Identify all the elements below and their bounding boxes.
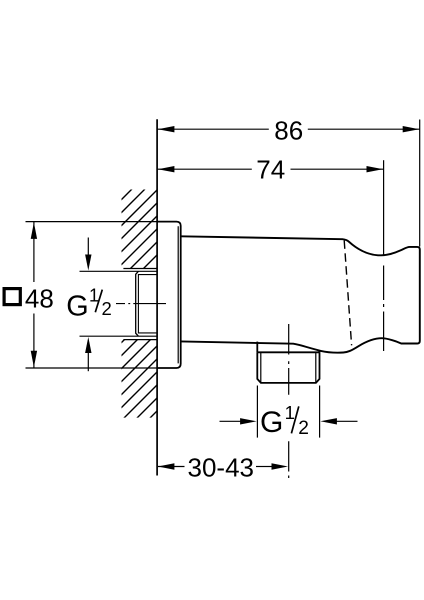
dimension 30-43 right arrow xyxy=(256,466,272,468)
inlet thread outer profile with chamfers xyxy=(136,271,139,336)
inlet thread inner (minor diameter) lines xyxy=(138,275,157,333)
outlet centre line (dash-dot) xyxy=(288,324,290,478)
dimension square-48 bottom extension line xyxy=(26,367,158,369)
G1/2 left leader arrow top xyxy=(87,238,89,256)
outlet nipple neck right xyxy=(319,351,321,353)
holder groove centre line (dash-dot) xyxy=(383,266,385,352)
square symbol xyxy=(4,289,20,305)
hidden edge (cone/head junction, dashed) xyxy=(344,240,351,345)
arrow 74 right xyxy=(367,166,384,172)
G1/2 left leader arrow bottom xyxy=(87,353,89,371)
dimension line 74 xyxy=(157,168,252,170)
outlet nipple thread outer profile xyxy=(257,352,319,383)
svg-text:G: G xyxy=(66,291,88,323)
wall recess bottom line xyxy=(123,339,157,341)
svg-text:2: 2 xyxy=(102,298,112,319)
dimension 86 right extension line xyxy=(419,120,421,247)
outlet nipple thread inner lines xyxy=(261,353,316,383)
dimension line 86 xyxy=(157,128,269,130)
G1/2 bottom right extension line xyxy=(319,386,321,438)
arrow 48 top xyxy=(31,222,37,239)
inlet centre line (dash-dot) xyxy=(116,303,166,305)
svg-text:2: 2 xyxy=(298,418,309,439)
body cone and holder head outline xyxy=(181,236,420,352)
dimension square-48 top extension line xyxy=(26,221,158,223)
arrow 48 bottom xyxy=(31,351,37,368)
svg-text:48: 48 xyxy=(25,283,54,313)
G1/2 bottom left extension line xyxy=(256,386,258,438)
arrow 86 right xyxy=(403,126,420,132)
G1/2 bottom right arrow xyxy=(337,420,358,422)
wall recess top line xyxy=(123,268,157,270)
svg-text:30-43: 30-43 xyxy=(188,453,255,483)
wall surface line xyxy=(156,119,158,475)
outlet nipple neck left xyxy=(256,342,258,353)
flange face inner edge line xyxy=(177,226,179,363)
flange (escutcheon) outline xyxy=(157,222,181,368)
wall hatching xyxy=(112,146,162,508)
dimension line 48 vertical xyxy=(33,222,35,282)
dimension 30-43 left arrow xyxy=(158,466,185,468)
arrow 86 left xyxy=(158,126,175,132)
arrow 74 left xyxy=(158,166,175,172)
svg-text:74: 74 xyxy=(256,154,285,184)
svg-text:G: G xyxy=(260,406,283,439)
inlet thread G1/2 top edge + extension line xyxy=(80,270,158,272)
G1/2 bottom left arrow xyxy=(220,420,241,422)
svg-text:86: 86 xyxy=(274,115,303,145)
dimension 74 right extension line (solid part) xyxy=(383,160,385,254)
svg-text:1: 1 xyxy=(285,402,295,423)
inlet thread G1/2 bottom edge + extension line xyxy=(80,335,158,337)
